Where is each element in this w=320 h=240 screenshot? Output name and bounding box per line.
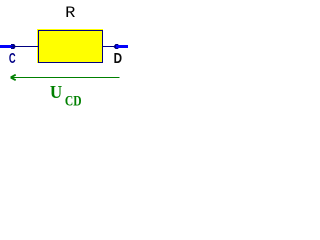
svg-text:CD: CD	[65, 92, 82, 109]
voltage arrowhead lower barb	[11, 78, 16, 81]
arrowhead at D (points left)	[113, 44, 118, 49]
svg-text:U: U	[50, 82, 63, 102]
terminal lead D (thick blue)	[116, 45, 128, 48]
background	[0, 0, 128, 111]
svg-text:D: D	[114, 50, 122, 67]
voltage arrow U_CD line (points left)	[11, 77, 120, 78]
terminal lead C (thick blue)	[0, 45, 13, 48]
wire resistor to D	[102, 46, 115, 47]
arrowhead at C (points right)	[11, 44, 16, 49]
resistor R outline	[39, 31, 103, 63]
wire C to resistor	[11, 46, 40, 47]
svg-text:R: R	[65, 4, 75, 22]
voltage arrowhead upper barb	[11, 75, 16, 78]
resistor R body (yellow fill with halo)	[37, 29, 103, 63]
svg-text:C: C	[9, 50, 16, 67]
